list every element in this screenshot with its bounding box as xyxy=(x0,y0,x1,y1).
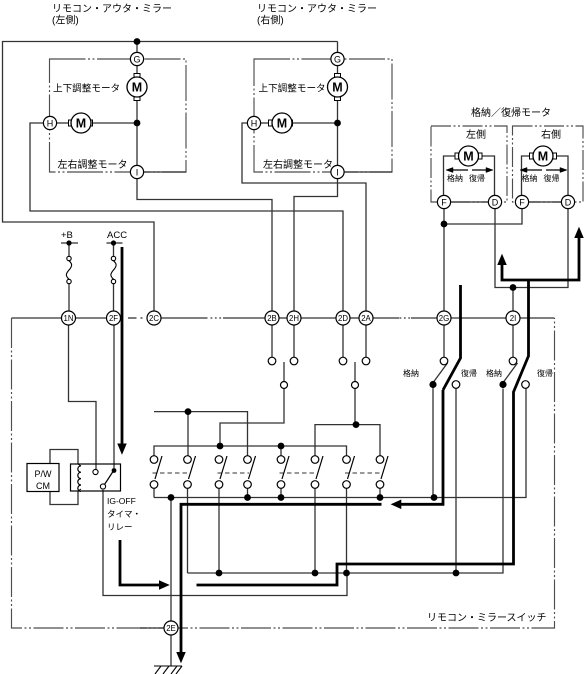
svg-text:G: G xyxy=(334,54,341,64)
svg-text:M: M xyxy=(277,117,287,131)
svg-text:左右調整モータ: 左右調整モータ xyxy=(58,158,128,171)
svg-text:2F: 2F xyxy=(109,314,118,323)
svg-text:左右調整モータ: 左右調整モータ xyxy=(263,158,333,171)
svg-text:格納: 格納 xyxy=(486,368,502,378)
svg-text:格納／復帰モータ: 格納／復帰モータ xyxy=(471,106,551,119)
svg-text:リモコン・アウタ・ミラー: リモコン・アウタ・ミラー xyxy=(257,3,377,15)
svg-text:(左側): (左側) xyxy=(52,14,79,27)
svg-text:復帰: 復帰 xyxy=(537,368,553,378)
svg-text:2I: 2I xyxy=(510,314,517,323)
svg-text:2H: 2H xyxy=(289,314,299,323)
svg-text:H: H xyxy=(251,118,258,128)
svg-text:格納: 格納 xyxy=(522,173,538,183)
svg-text:2B: 2B xyxy=(267,314,277,323)
svg-text:上下調整モータ: 上下調整モータ xyxy=(53,83,120,95)
svg-text:2G: 2G xyxy=(439,314,449,323)
svg-text:左側: 左側 xyxy=(466,128,486,141)
svg-text:2C: 2C xyxy=(149,314,159,323)
svg-text:I: I xyxy=(136,167,139,177)
svg-text:復帰: 復帰 xyxy=(461,368,477,378)
svg-text:復帰: 復帰 xyxy=(469,173,485,183)
svg-text:M: M xyxy=(76,117,86,131)
svg-text:復帰: 復帰 xyxy=(544,173,560,183)
svg-text:H: H xyxy=(47,118,54,128)
svg-text:上下調整モータ: 上下調整モータ xyxy=(259,83,326,95)
svg-text:M: M xyxy=(538,150,548,164)
svg-text:F: F xyxy=(441,197,447,207)
svg-text:D: D xyxy=(492,197,499,207)
svg-text:リモコン・アウタ・ミラー: リモコン・アウタ・ミラー xyxy=(52,3,172,15)
svg-text:タイマ・: タイマ・ xyxy=(107,509,141,519)
svg-text:+B: +B xyxy=(61,230,73,241)
svg-text:CM: CM xyxy=(36,481,50,491)
svg-text:F: F xyxy=(519,197,525,207)
svg-text:P/W: P/W xyxy=(35,469,53,479)
svg-text:ACC: ACC xyxy=(107,230,127,241)
svg-text:G: G xyxy=(133,54,140,64)
svg-text:I: I xyxy=(336,167,339,177)
svg-text:1N: 1N xyxy=(64,314,74,323)
svg-text:M: M xyxy=(132,81,142,95)
svg-text:D: D xyxy=(565,197,572,207)
svg-text:2A: 2A xyxy=(361,314,371,323)
svg-text:2E: 2E xyxy=(166,624,176,633)
svg-text:M: M xyxy=(463,150,473,164)
svg-text:2D: 2D xyxy=(338,314,348,323)
svg-text:右側: 右側 xyxy=(541,128,561,141)
svg-text:M: M xyxy=(332,81,342,95)
svg-text:格納: 格納 xyxy=(447,173,463,183)
svg-text:格納: 格納 xyxy=(403,368,419,378)
svg-text:リモコン・ミラースイッチ: リモコン・ミラースイッチ xyxy=(427,612,547,624)
svg-text:(右側): (右側) xyxy=(257,14,284,27)
svg-text:リレー: リレー xyxy=(107,522,133,532)
svg-text:IG-OFF: IG-OFF xyxy=(107,496,136,506)
